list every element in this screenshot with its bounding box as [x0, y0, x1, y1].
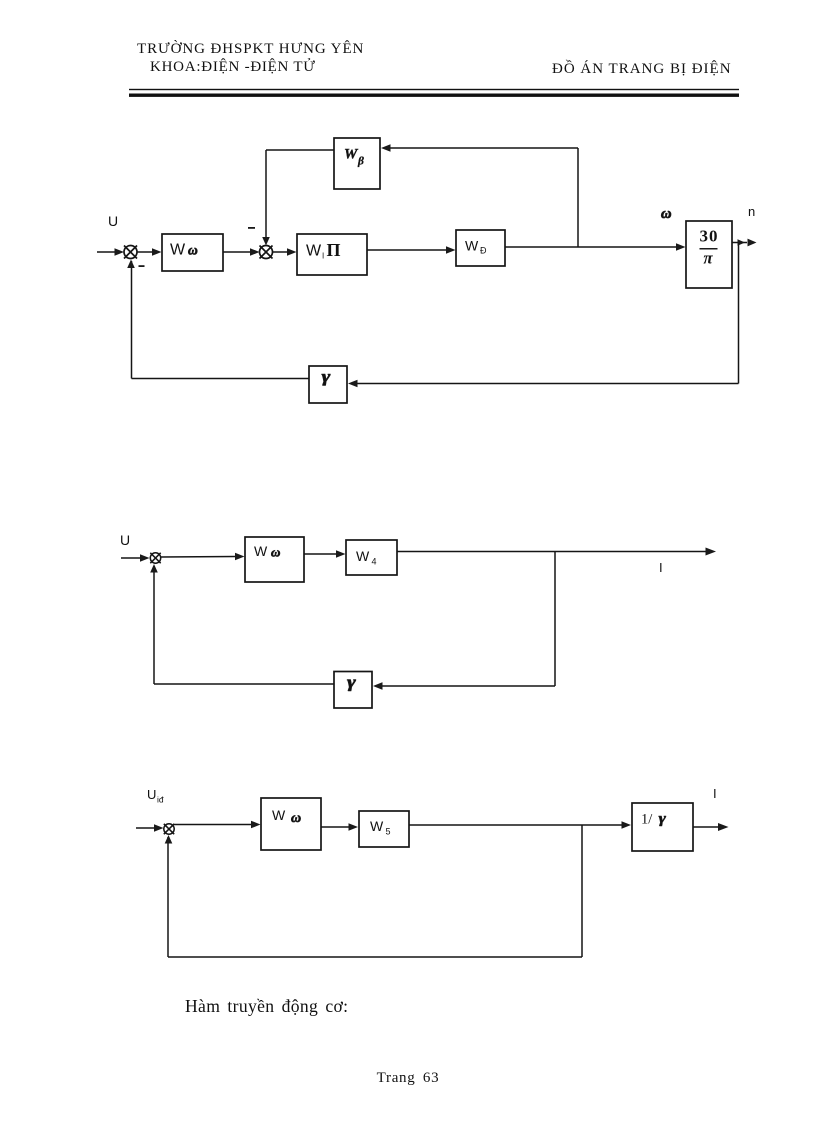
svg-text:U: U [108, 213, 118, 229]
wire output I (diagram 3) [693, 823, 729, 831]
svg-text:W: W [370, 818, 384, 834]
wire feedback up into S4 [165, 835, 173, 957]
summing junction S1 [124, 246, 137, 259]
wire WD to block 30/pi (with tap to W beta) [505, 243, 686, 251]
block WI PI (current PI controller, diagram 1) [297, 234, 367, 275]
block W beta (feedback block, diagram 1) [334, 138, 380, 189]
svg-text:30: 30 [700, 227, 719, 246]
svg-text:W: W [254, 543, 268, 559]
svg-text:KHOA:ĐIỆN -ĐIỆN TỬ: KHOA:ĐIỆN -ĐIỆN TỬ [150, 58, 316, 75]
svg-text:1/: 1/ [641, 812, 653, 828]
svg-text:U: U [147, 787, 156, 802]
wire feedback tap down (diagram 3) [581, 825, 583, 957]
wire feedback right segment into gamma G2 [373, 682, 555, 690]
summing junction S4 [164, 824, 174, 834]
svg-text:I: I [659, 560, 663, 575]
svg-text:ĐỒ ÁN TRANG BỊ ĐIỆN: ĐỒ ÁN TRANG BỊ ĐIỆN [552, 59, 732, 77]
minus sign at S1 feedback input [139, 265, 145, 267]
wire W beta output down into S2 [262, 150, 334, 246]
svg-text:W: W [170, 242, 186, 259]
wire input U_id to summer S4 [136, 824, 164, 832]
svg-text:W: W [306, 243, 322, 260]
wire WI PI to block WD [367, 246, 456, 254]
svg-text:ω: ω [188, 243, 198, 258]
block W omega (diagram 3) [261, 798, 321, 850]
block gamma G1 (feedback gain, diagram 1) [309, 366, 347, 403]
svg-text:β: β [357, 156, 364, 168]
summing junction S3 [150, 553, 160, 563]
wire tap to W beta (top feedback) [381, 144, 578, 247]
svg-text:W: W [344, 147, 359, 163]
svg-text:γ: γ [347, 673, 356, 692]
wire input U to summer S3 [121, 554, 150, 562]
svg-text:U: U [120, 532, 130, 548]
block gamma G2 (feedback gain, diagram 2) [334, 672, 372, 709]
wire output n with double arrowhead [732, 239, 757, 247]
svg-text:W: W [356, 548, 370, 564]
svg-text:Hàm truyền động cơ:: Hàm truyền động cơ: [185, 996, 348, 1016]
block W omega (speed controller, diagram 1) [162, 234, 223, 271]
wire S4 to block W omega (diagram 3) [174, 821, 261, 829]
svg-text:W: W [465, 238, 479, 254]
svg-text:I: I [713, 786, 717, 801]
wire input U to summer S1 [97, 248, 124, 256]
svg-text:TRƯỜNG ĐHSPKT HƯNG YÊN: TRƯỜNG ĐHSPKT HƯNG YÊN [137, 40, 364, 57]
wire S2 to block WI PI [273, 248, 297, 256]
svg-text:4: 4 [372, 557, 377, 567]
wire feedback tap down from output (diagram 1) [738, 243, 740, 384]
svg-text:ω: ω [291, 811, 301, 826]
svg-text:ω: ω [661, 206, 672, 222]
wire feedback tap down (diagram 2) [554, 552, 556, 687]
svg-text:5: 5 [386, 827, 391, 837]
wire gamma G1 to S1 (left + up) [127, 260, 309, 379]
svg-text:ω: ω [271, 545, 280, 560]
block 1/gamma (diagram 3) [632, 803, 693, 851]
wire W4 to output I (with tap) [397, 548, 716, 556]
wire S3 to block W omega (diagram 2) [161, 553, 245, 561]
block 30/pi (units conversion, diagram 1) [686, 221, 732, 288]
wire feedback right segment into gamma G1 [348, 380, 739, 388]
minus sign at S2 feedback input [248, 227, 255, 229]
block WD (motor block, diagram 1) [456, 230, 505, 266]
svg-text:γ: γ [322, 368, 331, 387]
wire W omega to summer S2 [223, 248, 260, 256]
wire W5 to block 1/gamma (with tap) [409, 821, 631, 829]
block W omega (diagram 2) [245, 537, 304, 582]
wire feedback bottom segment (diagram 3) [168, 956, 582, 958]
wire W omega to block W4 [304, 550, 346, 558]
wire gamma G2 to S3 (left + up) [150, 564, 334, 684]
svg-text:I: I [322, 252, 324, 261]
node U_id (input label, diagram 3) [147, 787, 164, 805]
svg-text:Π: Π [327, 240, 341, 260]
wire W omega to block W5 [321, 823, 358, 831]
svg-text:Đ: Đ [480, 246, 487, 256]
svg-text:γ: γ [659, 809, 667, 826]
svg-text:n: n [748, 204, 755, 219]
svg-text:W: W [272, 807, 286, 823]
svg-text:iđ: iđ [157, 795, 164, 805]
block W5 (diagram 3) [359, 811, 409, 847]
wire S1 to block W omega [138, 248, 162, 256]
svg-text:Trang 63: Trang 63 [377, 1070, 440, 1086]
summing junction S2 [260, 246, 273, 259]
block W4 (diagram 2) [346, 540, 397, 575]
svg-text:π: π [703, 249, 713, 268]
